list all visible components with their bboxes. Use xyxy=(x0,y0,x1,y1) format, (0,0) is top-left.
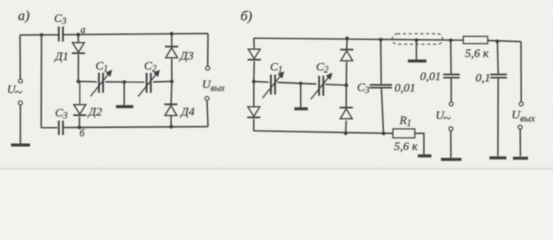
svg-text:5,6 к: 5,6 к xyxy=(465,46,489,60)
svg-text:Д1: Д1 xyxy=(54,49,69,63)
svg-text:0,01: 0,01 xyxy=(395,81,416,95)
svg-text:0,1: 0,1 xyxy=(476,71,491,85)
svg-text:б): б) xyxy=(241,10,253,25)
svg-text:а): а) xyxy=(18,9,30,24)
svg-text:Д3: Д3 xyxy=(179,49,194,63)
svg-text:0,01: 0,01 xyxy=(420,69,441,83)
svg-text:5,6 к: 5,6 к xyxy=(394,139,418,153)
svg-text:Д2: Д2 xyxy=(88,105,103,119)
svg-text:a: a xyxy=(81,25,86,36)
svg-text:Д4: Д4 xyxy=(180,105,195,119)
